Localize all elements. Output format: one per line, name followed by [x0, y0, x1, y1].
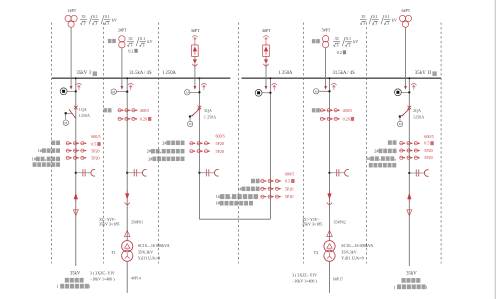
svg-text:3 ( 3XZC−YJV: 3 ( 3XZC−YJV — [292, 272, 317, 277]
svg-text:5P20: 5P20 — [285, 186, 293, 191]
svg-text:kV: kV — [392, 17, 397, 22]
svg-text:SC10—16 000kVA: SC10—16 000kVA — [138, 243, 170, 248]
svg-text:35/6.3kV: 35/6.3kV — [138, 249, 153, 254]
svg-text:4#PT: 4#PT — [262, 28, 272, 33]
svg-text:600/5: 600/5 — [424, 134, 433, 139]
svg-text:5P20: 5P20 — [216, 141, 224, 146]
svg-text:0.1: 0.1 — [93, 14, 98, 19]
svg-text:1QA: 1QA — [79, 107, 87, 112]
svg-text:3: 3 — [337, 43, 339, 47]
svg-text:35kV: 35kV — [406, 272, 417, 277]
svg-text:35: 35 — [335, 36, 339, 41]
svg-text:35kV: 35kV — [70, 271, 81, 276]
svg-text:5P20: 5P20 — [91, 156, 99, 161]
svg-text:M: M — [112, 90, 115, 94]
svg-text:0.5: 0.5 — [91, 142, 96, 147]
svg-text:1 250A: 1 250A — [279, 71, 294, 76]
svg-text:35: 35 — [82, 14, 86, 19]
svg-text:1250A: 1250A — [413, 115, 424, 120]
svg-text:6#PT: 6#PT — [402, 8, 411, 13]
svg-text:35#P02: 35#P02 — [334, 219, 346, 224]
svg-text:−10kV 1×400 ): −10kV 1×400 ) — [292, 279, 317, 284]
svg-text:3#PT: 3#PT — [191, 28, 201, 33]
svg-text:400/5: 400/5 — [343, 108, 352, 113]
svg-text:600/5: 600/5 — [285, 172, 294, 177]
svg-text:3: 3 — [348, 43, 350, 47]
svg-text:3: 3 — [95, 22, 97, 26]
svg-text:M: M — [315, 89, 318, 93]
svg-text:0.1: 0.1 — [373, 14, 378, 19]
svg-text:0.1: 0.1 — [105, 14, 110, 19]
svg-text:3: 3 — [387, 22, 389, 26]
svg-text:3: 3 — [83, 22, 85, 26]
svg-text:II: II — [428, 71, 432, 76]
svg-text:1 250A: 1 250A — [162, 71, 177, 76]
svg-text:6#P17: 6#P17 — [333, 276, 343, 281]
svg-text:3: 3 — [375, 22, 377, 26]
svg-text:400/5: 400/5 — [140, 108, 149, 113]
svg-text:3: 3 — [363, 22, 365, 26]
svg-text:35kV 3×185: 35kV 3×185 — [99, 221, 120, 226]
svg-text:T1: T1 — [111, 250, 116, 255]
svg-text:T2: T2 — [314, 250, 319, 255]
svg-text:M: M — [64, 121, 67, 125]
svg-text:4#P14: 4#P14 — [131, 275, 141, 280]
svg-text:M: M — [189, 122, 192, 126]
svg-text:35kV 3×185: 35kV 3×185 — [302, 222, 323, 227]
svg-text:1#PT: 1#PT — [68, 8, 77, 13]
svg-text:35: 35 — [129, 36, 133, 41]
svg-text:5P20: 5P20 — [424, 148, 432, 153]
svg-text:35: 35 — [361, 14, 365, 19]
svg-text:M: M — [399, 122, 402, 126]
svg-text:0.2: 0.2 — [337, 50, 342, 55]
svg-text:M: M — [186, 91, 189, 95]
svg-text:3: 3 — [107, 22, 109, 26]
svg-text:35kV: 35kV — [76, 71, 88, 76]
svg-text:2QA: 2QA — [413, 108, 421, 113]
svg-text:5P20: 5P20 — [285, 194, 293, 199]
svg-text:0.2: 0.2 — [128, 48, 133, 53]
svg-text:0.1: 0.1 — [140, 36, 145, 41]
svg-text:1250A: 1250A — [79, 113, 90, 118]
svg-text:2#PT: 2#PT — [118, 28, 127, 33]
svg-text:0.1: 0.1 — [385, 14, 390, 19]
svg-text:0.2S: 0.2S — [140, 116, 148, 121]
svg-text:35#P01: 35#P01 — [131, 220, 143, 225]
svg-text:5P20: 5P20 — [91, 149, 99, 154]
svg-text:kV: kV — [147, 39, 152, 44]
svg-text:0.1: 0.1 — [346, 36, 351, 41]
svg-text:kV: kV — [112, 17, 117, 22]
svg-text:0.5: 0.5 — [285, 179, 290, 184]
svg-text:35kV: 35kV — [415, 71, 427, 76]
svg-text:3 ( 3XZC−YJV: 3 ( 3XZC−YJV — [90, 270, 115, 275]
svg-text:5P20: 5P20 — [424, 155, 432, 160]
svg-text:−10kV 1×400 ): −10kV 1×400 ) — [90, 276, 115, 281]
svg-text:0.2S: 0.2S — [343, 116, 351, 121]
svg-text:SC10—16 000kVA: SC10—16 000kVA — [341, 243, 373, 248]
svg-text:600/5: 600/5 — [91, 134, 100, 139]
svg-text:kV: kV — [353, 39, 358, 44]
svg-text:3: 3 — [130, 43, 132, 47]
svg-text:3QA: 3QA — [204, 108, 212, 113]
svg-text:35/6.3kV: 35/6.3kV — [341, 249, 356, 254]
svg-text:1 250A: 1 250A — [204, 114, 216, 119]
svg-text:5#PT: 5#PT — [322, 27, 331, 32]
svg-text:31.5kA / 4S: 31.5kA / 4S — [333, 71, 356, 76]
svg-text:Y.d11 Uₒ%=9: Y.d11 Uₒ%=9 — [341, 256, 363, 261]
svg-text:Y.d11 Uₒ%=9: Y.d11 Uₒ%=9 — [138, 256, 160, 261]
svg-text:600/5: 600/5 — [216, 134, 225, 139]
svg-text:3: 3 — [143, 43, 145, 47]
svg-text:31.5kA / 4S: 31.5kA / 4S — [129, 71, 152, 76]
svg-text:5P20: 5P20 — [216, 149, 224, 154]
svg-text:0.5: 0.5 — [424, 141, 429, 146]
